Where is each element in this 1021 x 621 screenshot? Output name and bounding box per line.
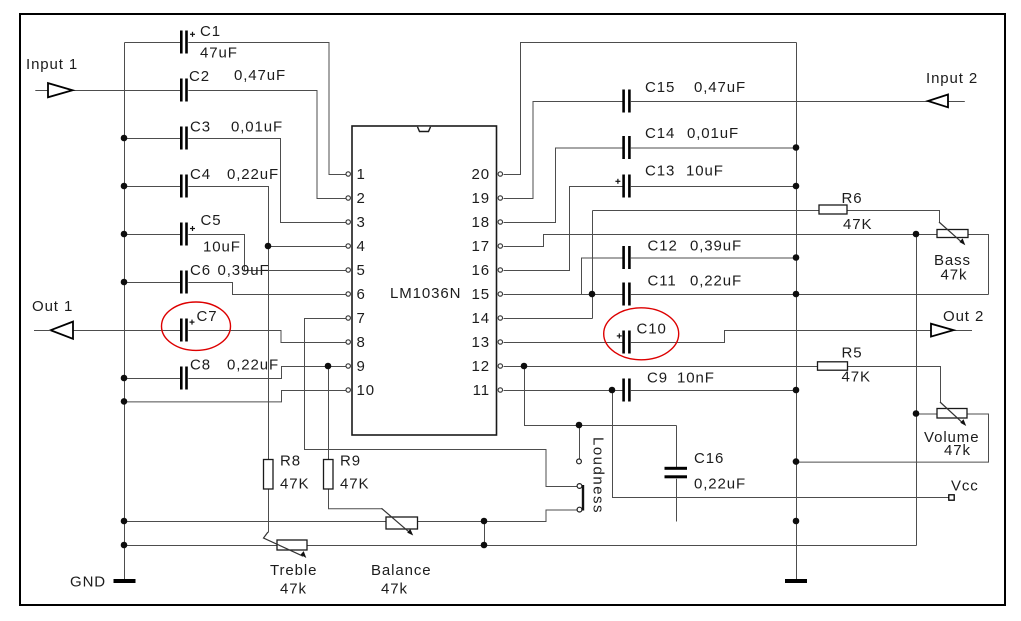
junction dot C4 pin 4 — [265, 243, 272, 250]
wire C9 to right rail — [631, 390, 797, 392]
svg-text:4: 4 — [357, 238, 366, 255]
ground rail right — [796, 43, 798, 580]
out 2 arrow — [931, 324, 954, 337]
pin numbers right — [472, 166, 491, 399]
svg-text:0,22uF: 0,22uF — [694, 476, 746, 493]
svg-text:C7: C7 — [197, 308, 218, 325]
svg-text:C10: C10 — [637, 321, 667, 338]
svg-text:C16: C16 — [694, 450, 724, 467]
pin numbers left — [357, 166, 376, 399]
svg-text:1: 1 — [357, 166, 366, 183]
wire node C4 to pin 4 — [269, 246, 347, 248]
wire pin 7 to loudness middle contact — [305, 319, 578, 487]
input 2 arrow — [928, 95, 948, 108]
junction dot C9 Vcc — [609, 387, 616, 394]
svg-text:11: 11 — [473, 382, 490, 399]
wire pin 11 to C9 — [504, 390, 624, 392]
wire R5 to volume pot area — [848, 367, 941, 403]
wire C7 right to pin 8 — [188, 331, 346, 343]
capacitor C12 0,39uF plates — [622, 246, 630, 269]
wire input 2 stub — [949, 101, 965, 103]
wire C11 to bass pot right — [631, 294, 989, 296]
svg-text:47k: 47k — [280, 581, 307, 598]
svg-text:Vcc: Vcc — [951, 478, 979, 495]
svg-text:0,47uF: 0,47uF — [694, 79, 746, 96]
svg-text:5: 5 — [357, 262, 366, 279]
wire C2 right to pin 2 — [188, 91, 346, 199]
wire C12 step to pin 15 line — [582, 258, 624, 295]
svg-text:3: 3 — [357, 214, 366, 231]
resistor R5 body — [818, 362, 848, 370]
svg-text:9: 9 — [357, 358, 366, 375]
junction dots left rail — [121, 135, 128, 549]
wire C16 bottom lead — [676, 479, 678, 522]
wire R6 line — [593, 210, 820, 212]
svg-text:0,39uF: 0,39uF — [218, 262, 270, 279]
svg-text:Input 2: Input 2 — [926, 70, 978, 87]
svg-text:2: 2 — [357, 190, 366, 207]
svg-text:6: 6 — [357, 286, 366, 303]
wire pin 14 — [504, 318, 593, 320]
IC pin circles right — [498, 172, 502, 392]
wire C12 to right rail — [631, 257, 797, 259]
wire R6 left to pin 14 node — [592, 211, 594, 319]
svg-text:C1: C1 — [200, 23, 221, 40]
potentiometer Bass wiper — [939, 222, 965, 245]
wire C10 to out 2 — [631, 331, 932, 343]
svg-text:Loudness: Loudness — [590, 437, 607, 514]
junction dot R6 C11 — [589, 291, 596, 298]
svg-text:10nF: 10nF — [677, 370, 715, 387]
wire C5 left to ground rail — [125, 234, 181, 236]
svg-text:20: 20 — [472, 166, 491, 183]
capacitor C7 plus mark — [190, 320, 195, 325]
wire pin 20 to right rail top — [504, 43, 797, 175]
wire bottom gnd line lower — [125, 545, 917, 547]
capacitor C13 10uF plates — [622, 175, 630, 198]
wire input 1 to C2 — [35, 90, 180, 92]
svg-text:C2: C2 — [189, 68, 210, 85]
svg-text:14: 14 — [472, 310, 491, 327]
svg-text:13: 13 — [472, 334, 491, 351]
svg-text:R9: R9 — [340, 453, 361, 470]
capacitor C14 0,01uF plates — [622, 136, 630, 159]
wire pin 17 to bass pot — [504, 235, 917, 247]
wire pin 13 to C10 — [504, 342, 624, 344]
capacitor C1 plus mark — [190, 32, 195, 37]
svg-text:17: 17 — [472, 238, 491, 255]
wire loudness top contact stub — [579, 426, 581, 460]
svg-text:0,39uF: 0,39uF — [690, 238, 742, 255]
wire R6 to bass pot area — [848, 211, 940, 223]
wire pin 10 to ground rail — [125, 391, 347, 402]
svg-text:0,22uF: 0,22uF — [227, 166, 279, 183]
wire out 2 stub — [954, 330, 972, 332]
IC pin circles left — [346, 172, 350, 392]
wire C13 to right rail — [631, 186, 797, 188]
wire C14 to right rail — [631, 147, 797, 149]
capacitor C2 0,47uF plates — [180, 79, 188, 102]
svg-text:10uF: 10uF — [203, 239, 241, 256]
svg-text:C11: C11 — [648, 273, 677, 290]
wire C9 node to Vcc — [613, 391, 950, 498]
svg-text:18: 18 — [472, 214, 491, 231]
svg-text:47uF: 47uF — [200, 45, 238, 62]
wire bass left terminal — [917, 234, 938, 236]
resistor R8 body — [264, 460, 274, 490]
wire pin 18 to C14 — [504, 148, 624, 223]
svg-text:7: 7 — [357, 310, 366, 327]
svg-text:0,22uF: 0,22uF — [227, 357, 279, 374]
junction dot pin 12 branch — [521, 363, 528, 370]
wire C8 right to pin 9 — [188, 367, 346, 379]
svg-text:C15: C15 — [645, 79, 675, 96]
svg-text:10: 10 — [357, 382, 376, 399]
capacitor C6 0,39uF plates — [180, 271, 188, 294]
wire out 1 to C7 — [74, 330, 181, 332]
junction dot pin 9 R9 — [325, 363, 332, 370]
svg-text:12: 12 — [472, 358, 491, 375]
capacitor C5 plus mark — [190, 226, 195, 231]
wire pin 12 branch to loudness and C16 — [525, 367, 677, 426]
svg-text:Out 2: Out 2 — [943, 308, 984, 325]
svg-text:0,22uF: 0,22uF — [690, 273, 742, 290]
svg-text:47k: 47k — [381, 581, 408, 598]
ground symbol left — [114, 579, 136, 583]
capacitor C13 plus mark — [615, 179, 620, 184]
wire pin 19 to C15 — [504, 102, 624, 199]
capacitor C9 10nF plates — [622, 379, 630, 402]
svg-text:0,01uF: 0,01uF — [687, 125, 739, 142]
wire C8 left to ground rail — [125, 378, 181, 380]
wire C1 right to pin 1 — [188, 43, 346, 175]
svg-text:47K: 47K — [842, 369, 871, 386]
junction dot bass pot left — [913, 231, 920, 238]
highlight ellipse around C10 — [604, 308, 679, 360]
wire bass and volume left terminal rail — [916, 235, 918, 546]
wire C3 left to ground rail — [125, 138, 181, 140]
loudness switch lever — [582, 485, 584, 511]
capacitor C10 plus mark — [617, 333, 622, 338]
highlight ellipse around C7 — [162, 302, 231, 350]
junction dot volume pot left — [913, 410, 920, 417]
capacitor C15 0,47uF plates — [622, 90, 630, 113]
svg-text:10uF: 10uF — [686, 163, 724, 180]
input 1 arrow — [48, 83, 73, 97]
junction dot loudness top — [576, 422, 583, 429]
potentiometer Volume body — [937, 409, 967, 419]
svg-text:GND: GND — [70, 574, 106, 591]
svg-text:C9: C9 — [647, 370, 668, 387]
loudness switch contacts — [577, 459, 582, 512]
svg-text:47k: 47k — [944, 442, 971, 459]
svg-text:C14: C14 — [645, 125, 675, 142]
capacitor C11 0,22uF plates — [622, 283, 630, 306]
capacitor C16 0,22uF plates — [665, 467, 688, 479]
wire R8 bottom lead — [268, 490, 270, 533]
potentiometer Treble body — [277, 540, 307, 550]
wire C15 to input 2 — [631, 101, 929, 103]
potentiometer Balance body — [386, 517, 418, 529]
out 1 arrow — [34, 322, 73, 339]
wire pin 16 to C13 — [504, 187, 624, 271]
potentiometer Bass body — [937, 230, 968, 238]
svg-text:16: 16 — [472, 262, 491, 279]
junction dots right rail — [793, 144, 800, 524]
wire C4 right down to R8 top — [188, 187, 268, 461]
svg-text:C5: C5 — [201, 212, 222, 229]
wire C6 right to pin 6 — [188, 283, 346, 295]
svg-text:C3: C3 — [190, 119, 211, 136]
wire C5 right to pin 5 — [188, 235, 346, 271]
svg-text:C12: C12 — [648, 238, 678, 255]
wire C1 left to ground rail — [125, 42, 181, 44]
wire C6 left to ground rail — [125, 282, 181, 284]
svg-text:Out 1: Out 1 — [32, 298, 73, 315]
wire volume right terminal to right rail — [797, 414, 989, 462]
svg-text:R8: R8 — [280, 453, 301, 470]
capacitor C8 0,22uF plates — [180, 367, 188, 390]
wire R9 bottom lead — [329, 490, 383, 509]
wire C3 right to pin 3 — [188, 139, 346, 223]
capacitor C10 plates — [622, 331, 630, 354]
wire C4 left to ground rail — [125, 186, 181, 188]
svg-text:C4: C4 — [190, 166, 211, 183]
svg-text:R5: R5 — [842, 345, 863, 362]
svg-text:47k: 47k — [941, 267, 968, 284]
svg-text:47K: 47K — [843, 216, 872, 233]
potentiometer Balance wiper — [382, 508, 414, 535]
capacitor C1 47uF plates — [180, 31, 188, 54]
svg-text:Balance: Balance — [371, 562, 432, 579]
capacitor C4 0,22uF plates — [180, 175, 188, 198]
ground rail left — [124, 43, 126, 580]
svg-text:15: 15 — [472, 286, 491, 303]
svg-text:C8: C8 — [190, 357, 211, 374]
wire R9 top to pin 9 node — [328, 367, 330, 461]
svg-text:8: 8 — [357, 334, 366, 351]
svg-text:LM1036N: LM1036N — [390, 285, 461, 302]
svg-text:Treble: Treble — [270, 562, 317, 579]
IC U1 LM1036N body — [352, 126, 497, 435]
capacitor C3 0,01uF plates — [180, 127, 188, 150]
svg-text:0,01uF: 0,01uF — [231, 119, 283, 136]
wire volume left terminal — [917, 413, 938, 415]
svg-text:47K: 47K — [280, 476, 309, 493]
wire pin 12 to R5 — [504, 366, 819, 368]
wire bottom gnd line upper — [125, 510, 578, 522]
wire C16 top lead — [676, 426, 678, 468]
Vcc terminal — [949, 495, 954, 500]
ground symbol right — [785, 579, 807, 583]
svg-text:47K: 47K — [340, 476, 369, 493]
svg-text:0,47uF: 0,47uF — [234, 67, 286, 84]
potentiometer Treble wiper — [264, 532, 307, 558]
svg-text:Input 1: Input 1 — [26, 56, 78, 73]
svg-text:R6: R6 — [842, 190, 863, 207]
svg-text:19: 19 — [472, 190, 491, 207]
capacitor C7 plates — [180, 319, 188, 342]
resistor R6 body — [819, 205, 847, 214]
wire pin 15 to C11 — [504, 294, 624, 296]
resistor R9 body — [324, 460, 334, 490]
wire jumper between gnd lines — [484, 522, 486, 546]
wire bass right terminal — [969, 235, 989, 295]
potentiometer Volume wiper — [940, 402, 966, 426]
svg-text:C13: C13 — [645, 163, 675, 180]
svg-text:C6: C6 — [190, 262, 211, 279]
junction dots gnd jumper — [481, 518, 488, 549]
capacitor C5 10uF plates — [180, 223, 188, 246]
